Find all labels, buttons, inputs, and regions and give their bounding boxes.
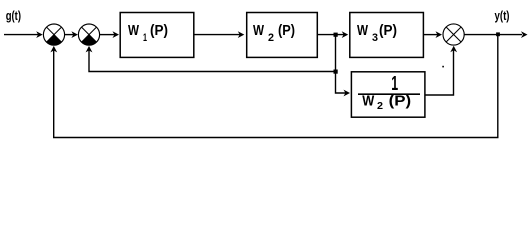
svg-text:3: 3 [372, 32, 378, 44]
svg-text:W: W [128, 23, 139, 39]
node y(t) output label [495, 9, 510, 23]
stray dot [442, 66, 444, 68]
svg-text:(P): (P) [150, 23, 168, 39]
svg-text:1: 1 [143, 32, 147, 44]
summer S3 [443, 24, 464, 45]
wire input g(t) to summer S1 [4, 31, 43, 38]
wire W3 to summer S3 [424, 31, 442, 38]
wire inner feedback drop from junction to block B4 input [336, 35, 351, 97]
wire W1 to W2 [195, 31, 245, 38]
block W1 [120, 13, 194, 58]
wire B4 output to summer S3 [425, 46, 457, 95]
junction dot after W2 [334, 33, 338, 37]
svg-text:(P): (P) [389, 94, 412, 110]
svg-text:(P): (P) [278, 23, 295, 39]
svg-text:2: 2 [268, 32, 274, 44]
block W2 [247, 13, 318, 58]
wire S2 to block W1 [100, 31, 119, 38]
junction dot at output [496, 32, 500, 36]
block W3 [350, 13, 424, 58]
wire feedback branch to summer S2 [86, 46, 336, 72]
wire W2 to W3 [318, 31, 348, 38]
block B4 1/W2(P) [351, 72, 425, 117]
svg-text:y(t): y(t) [495, 9, 510, 23]
wire outer feedback from output to summer S1 [50, 35, 497, 138]
svg-text:1: 1 [391, 72, 398, 95]
wire S1 to S2 [65, 31, 78, 38]
svg-text:2: 2 [377, 100, 383, 112]
summer S1 [43, 24, 64, 45]
svg-text:g(t): g(t) [6, 9, 21, 23]
node g(t) input label [6, 9, 21, 23]
svg-text:W: W [357, 23, 368, 39]
svg-text:(P): (P) [379, 23, 397, 39]
svg-text:W: W [362, 94, 374, 110]
summer S2 [78, 24, 99, 45]
svg-text:W: W [253, 23, 264, 39]
junction dot on feedback drop [334, 70, 338, 74]
wire S3 to output y(t) [464, 31, 527, 38]
